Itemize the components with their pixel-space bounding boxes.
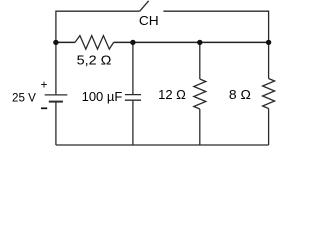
- switch CH blade: [140, 1, 149, 11]
- node A junction dot: [53, 40, 58, 45]
- svg-text:100 µF: 100 µF: [82, 89, 123, 104]
- node C junction dot: [197, 40, 202, 45]
- wire 8 ohm branch upper: [268, 42, 270, 78]
- wire middle rail right segment: [114, 41, 269, 43]
- wire 12 ohm branch upper: [199, 42, 201, 79]
- wire middle rail left segment: [56, 41, 75, 43]
- wire top-left vertical (node A up to top rail): [56, 11, 140, 42]
- capacitor C1 bottom plate: [125, 99, 141, 101]
- wire battery branch lower: [55, 102, 57, 145]
- battery V1 positive plate: [45, 94, 68, 96]
- wire capacitor branch lower: [132, 101, 134, 145]
- resistor R1 5,2 ohm zigzag: [75, 36, 114, 50]
- wire top rail right of switch: [163, 11, 268, 42]
- battery minus sign: [41, 107, 47, 109]
- wire 8 ohm branch lower: [268, 109, 270, 146]
- resistor R3 8 ohm zigzag: [263, 79, 275, 109]
- resistor R2 12 ohm zigzag: [194, 79, 206, 109]
- battery V1 negative plate: [49, 101, 63, 103]
- wire battery branch upper: [55, 42, 57, 94]
- svg-text:5,2 Ω: 5,2 Ω: [77, 53, 112, 68]
- capacitor C1 top plate: [125, 94, 141, 96]
- svg-text:12 Ω: 12 Ω: [158, 87, 186, 102]
- wire bottom rail: [56, 144, 269, 146]
- node B junction dot: [130, 40, 135, 45]
- node D junction dot: [266, 40, 271, 45]
- svg-text:CH: CH: [139, 13, 159, 28]
- svg-text:+: +: [40, 78, 47, 92]
- svg-text:8 Ω: 8 Ω: [229, 87, 251, 102]
- wire capacitor branch upper: [132, 42, 134, 94]
- svg-text:25 V: 25 V: [12, 92, 36, 105]
- wire 12 ohm branch lower: [199, 109, 201, 145]
